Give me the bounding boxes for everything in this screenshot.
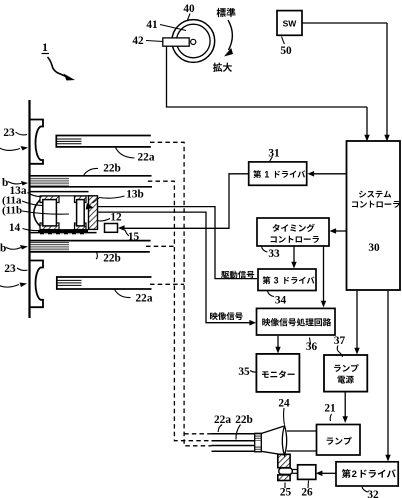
svg-text:26: 26 <box>301 487 313 498</box>
svg-text:SW: SW <box>283 19 298 29</box>
timing controller box <box>257 218 329 246</box>
barrel lower long line <box>30 240 151 242</box>
timing controller text <box>272 224 314 232</box>
wire driver2 to motor <box>322 472 337 474</box>
driver1 text <box>253 170 261 178</box>
video processor text <box>262 318 331 326</box>
svg-text:23: 23 <box>3 127 15 139</box>
wire dial to controller <box>167 46 368 107</box>
svg-text:21: 21 <box>324 403 336 415</box>
arrow into video processor <box>249 320 256 326</box>
svg-text:40: 40 <box>183 3 195 15</box>
dial outer circle 40 <box>172 20 215 63</box>
curved arrow from 1 <box>48 57 67 77</box>
svg-text:30: 30 <box>368 242 380 254</box>
lens 11a front arc <box>34 200 40 226</box>
arrow hyoujun to kakudai <box>228 20 232 50</box>
driver3 text <box>262 276 270 284</box>
svg-text:(11b: (11b <box>2 205 22 217</box>
driver2 text <box>342 469 351 478</box>
condenser lens 24 <box>282 426 286 456</box>
image sensor 12 <box>89 196 98 230</box>
svg-text:31: 31 <box>268 147 280 159</box>
label drive signal <box>221 271 254 279</box>
svg-text:1: 1 <box>42 40 48 54</box>
svg-text:13b: 13b <box>126 189 144 201</box>
dashed guide 22a <box>150 142 212 446</box>
svg-text:14: 14 <box>9 222 21 234</box>
svg-text:36: 36 <box>306 341 318 353</box>
light guide bundle <box>212 434 256 452</box>
label kakudai <box>213 63 232 72</box>
lens 23 bottom <box>30 261 43 308</box>
wire timing to driver3 <box>293 246 295 264</box>
system controller 30 box <box>347 141 401 290</box>
barrel top line 13b <box>30 186 152 188</box>
leader 21a bottom <box>0 285 19 288</box>
svg-text:15: 15 <box>128 231 140 243</box>
svg-text:32: 32 <box>367 489 379 498</box>
svg-text:22b: 22b <box>235 414 253 426</box>
driver3 box <box>258 269 316 291</box>
svg-text:b: b <box>2 177 8 189</box>
rail 22a bottom <box>57 277 152 289</box>
wire timing to video processor <box>323 246 325 303</box>
svg-text:22a: 22a <box>138 152 155 164</box>
arrow SW into controller <box>386 23 388 137</box>
wire lamp power to lamp <box>344 392 346 418</box>
lamp box <box>317 425 361 456</box>
arrow into 15 <box>118 225 125 231</box>
lens group 11a <box>40 196 59 203</box>
lens 23 top <box>30 120 43 164</box>
wire controller to lamp power <box>356 291 358 350</box>
driver2 box <box>336 462 398 486</box>
video processor box <box>257 308 336 335</box>
dashed joint 22b bottom <box>146 245 174 247</box>
wall vertical line <box>28 100 30 318</box>
light cone <box>261 426 283 455</box>
bundle end block <box>255 434 262 441</box>
rail 22a top <box>56 136 151 147</box>
svg-text:22a: 22a <box>214 414 231 426</box>
svg-text:33: 33 <box>268 248 280 260</box>
lamp coupling lines <box>287 430 317 432</box>
wire drive signal <box>98 207 258 279</box>
inner frame lines <box>40 195 89 197</box>
lamp power box <box>324 355 367 392</box>
dashed joint to bundle top <box>184 433 211 435</box>
lamp power text <box>334 364 359 372</box>
system controller text <box>359 191 391 198</box>
svg-text:b: b <box>0 243 6 255</box>
actuator 15 <box>105 224 118 233</box>
svg-text:3: 3 <box>274 275 279 285</box>
dial center dot <box>191 39 196 44</box>
svg-text:42: 42 <box>132 35 144 47</box>
svg-text:1: 1 <box>264 169 269 179</box>
wire processor to monitor <box>277 336 279 349</box>
svg-text:34: 34 <box>275 295 287 307</box>
dashed joint 22a bottom <box>150 283 184 285</box>
svg-text:2: 2 <box>352 469 357 480</box>
dial lever 42 <box>163 38 189 46</box>
monitor box <box>256 354 299 392</box>
wire video signal <box>98 212 250 323</box>
svg-text:50: 50 <box>280 45 292 57</box>
svg-text:24: 24 <box>278 398 290 410</box>
wire controller to driver2 <box>387 291 389 457</box>
base plate 14 <box>38 230 88 233</box>
barrel bottom line <box>30 232 97 234</box>
leader 21a top <box>0 147 20 150</box>
wire 15 to driver1 <box>124 174 248 229</box>
svg-text:12: 12 <box>110 212 122 224</box>
svg-text:22b: 22b <box>103 163 121 175</box>
svg-text:22b: 22b <box>103 253 121 265</box>
svg-text:37: 37 <box>334 335 346 347</box>
svg-text:35: 35 <box>238 366 250 378</box>
rail 22b bottom <box>30 251 150 253</box>
arrow dial into controller <box>366 107 368 137</box>
lamp text <box>327 437 352 445</box>
aperture 25 <box>278 454 290 467</box>
svg-text:25: 25 <box>280 487 292 498</box>
wire SW to controller <box>302 22 387 24</box>
dashed guide 22b <box>148 181 212 441</box>
barrel second top line <box>30 191 89 193</box>
wire controller to timing <box>336 230 346 232</box>
label video signal <box>210 312 243 320</box>
monitor text <box>262 370 295 378</box>
driver1 box <box>249 162 307 185</box>
svg-text:22a: 22a <box>136 293 153 305</box>
motor 26 box <box>298 465 316 480</box>
wire controller to driver1 <box>314 173 346 175</box>
lens group 11b <box>75 196 87 203</box>
switch box SW <box>277 11 302 36</box>
svg-text:41: 41 <box>146 19 158 31</box>
svg-text:23: 23 <box>4 263 16 275</box>
label hyoujun <box>217 8 236 17</box>
dial inner circle 41 <box>177 24 211 58</box>
rail 22b top <box>30 175 152 177</box>
